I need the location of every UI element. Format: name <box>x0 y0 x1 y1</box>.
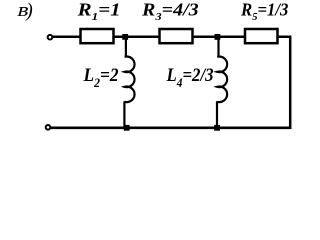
node junction dot bottom-right <box>214 125 220 131</box>
svg-text:R1=1: R1=1 <box>77 1 121 23</box>
svg-text:L4=2/3: L4=2/3 <box>166 64 214 90</box>
wire R3 to R5 <box>192 35 245 38</box>
terminal bottom-left <box>46 125 51 130</box>
inductor L2 <box>124 38 134 129</box>
node junction dot top-right <box>215 34 221 40</box>
wire R5 to right corner and down <box>277 37 290 129</box>
figure label в) <box>15 0 31 20</box>
node junction dot bottom-left <box>124 125 130 131</box>
label R3=4/3 <box>141 0 199 22</box>
bottom wire <box>51 127 292 130</box>
resistor R1 <box>81 29 114 43</box>
svg-text:R5=1/3: R5=1/3 <box>240 0 289 23</box>
terminal top-left <box>48 35 53 40</box>
label R1=1 <box>77 1 121 23</box>
resistor R3 <box>160 29 193 43</box>
node junction dot top-left <box>122 34 128 40</box>
resistor R5 <box>245 29 278 43</box>
wire R1 to R3 <box>113 35 160 38</box>
inductor L4 <box>217 38 227 129</box>
label R5=1/3 <box>240 0 289 23</box>
svg-text:R3=4/3: R3=4/3 <box>141 0 199 22</box>
label L4=2/3 <box>166 64 214 90</box>
label L2=2 <box>83 64 119 90</box>
wire terminal to R1 <box>53 35 81 38</box>
svg-text:L2=2: L2=2 <box>83 64 119 90</box>
svg-text:): ) <box>25 1 33 22</box>
